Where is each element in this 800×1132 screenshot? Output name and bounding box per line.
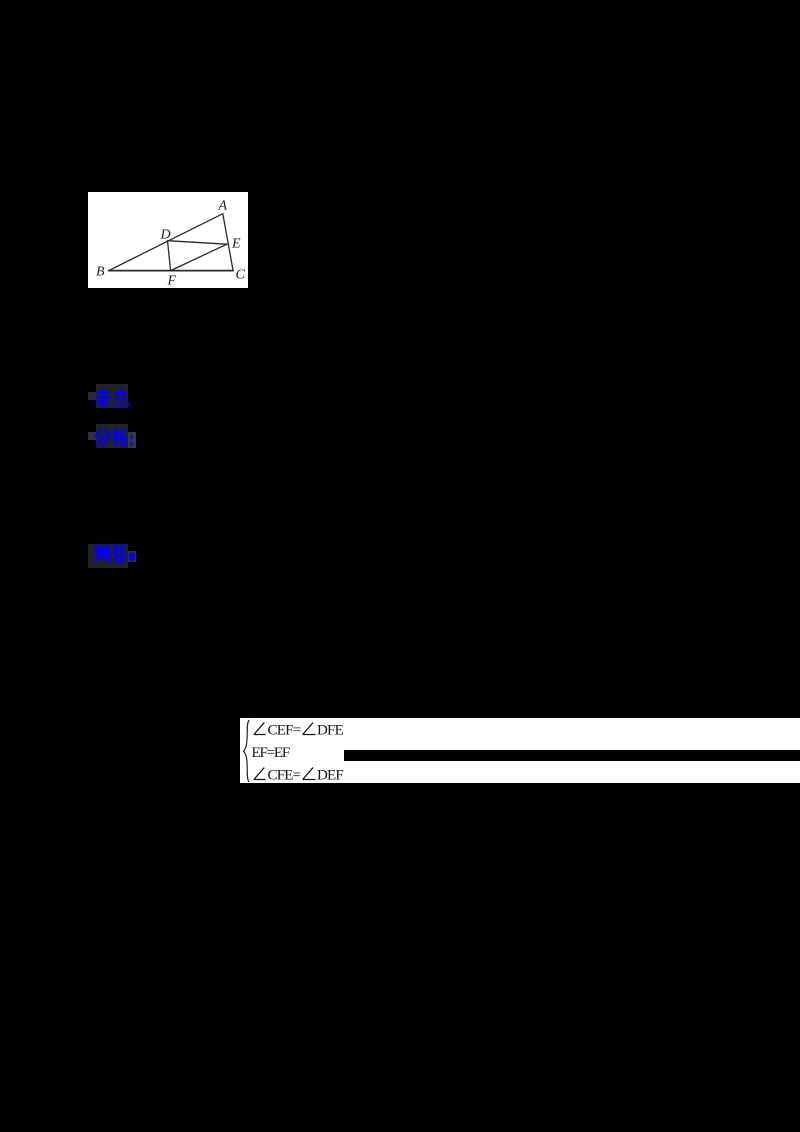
svg-text:D: D [160,227,171,242]
svg-text:C: C [236,267,246,282]
svg-text:DEF: DEF [317,768,343,784]
svg-text:CFE=: CFE= [268,768,301,784]
svg-text:F: F [167,273,177,288]
svg-text:E: E [231,236,241,251]
svg-text:CEF=: CEF= [268,723,301,739]
svg-text:DFE: DFE [317,723,344,739]
svg-text:B: B [96,264,105,279]
svg-text:EF=EF: EF=EF [252,745,290,761]
svg-text:A: A [218,198,228,213]
